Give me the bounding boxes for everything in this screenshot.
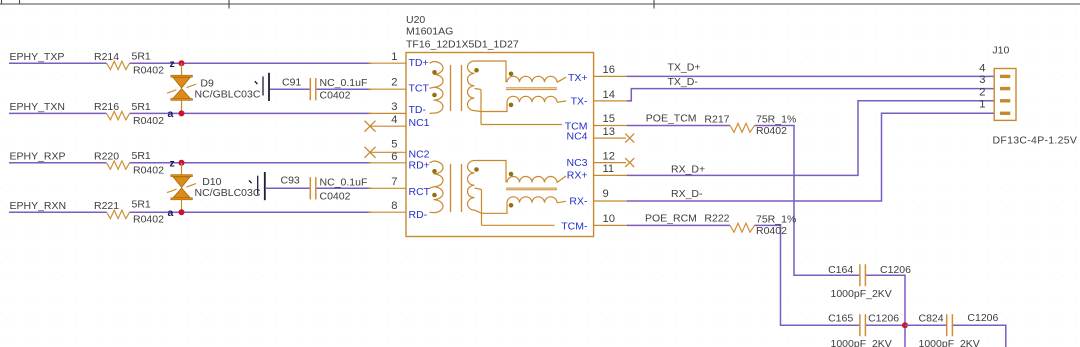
U20 RX center tap to TCM-: [475, 188, 555, 225]
svg-text:TD+: TD+: [409, 57, 429, 69]
J10 pin 4: [979, 62, 1010, 78]
wire TX_D-: [627, 89, 994, 101]
wire C824 right: [953, 325, 1006, 347]
svg-text:6: 6: [391, 151, 397, 163]
svg-text:NC/GBLC03C: NC/GBLC03C: [195, 187, 261, 199]
svg-text:RX-: RX-: [569, 195, 588, 207]
U20 RX choke A dot: [509, 172, 514, 177]
resistor R222: [704, 212, 796, 237]
svg-text:EPHY_RXN: EPHY_RXN: [10, 200, 67, 212]
svg-text:R0402: R0402: [133, 115, 164, 127]
svg-text:DF13C-4P-1.25V: DF13C-4P-1.25V: [993, 135, 1078, 147]
svg-text:D10: D10: [202, 176, 221, 188]
U20 pin 16: [594, 64, 628, 76]
wire C164 to node: [866, 275, 905, 347]
svg-text:RX+: RX+: [567, 170, 588, 182]
svg-text:3: 3: [391, 101, 397, 113]
wire POE_RCM: [627, 225, 860, 325]
svg-text:C164: C164: [828, 264, 853, 276]
svg-text:R0402: R0402: [133, 214, 164, 226]
resistor R220: [94, 150, 164, 176]
capacitor C165: [828, 313, 899, 347]
U20 pin 15: [594, 113, 628, 125]
node junction TXP-D9: [179, 60, 185, 66]
node junction RXP-D10: [179, 160, 185, 166]
svg-text:1000pF_2KV: 1000pF_2KV: [919, 338, 980, 347]
resistor R216: [94, 101, 164, 127]
U20 RX secondary top link: [475, 161, 507, 183]
U20 TX core: [451, 65, 462, 111]
svg-text:C1206: C1206: [967, 312, 998, 324]
svg-text:C824: C824: [919, 313, 944, 325]
wire TX_D+: [627, 75, 994, 77]
U20 RX choke B dot: [509, 203, 514, 208]
svg-text:a: a: [168, 108, 174, 120]
U20 TX primary polarity dots: [432, 70, 437, 97]
wire EPHY_TXP: [9, 62, 371, 64]
svg-text:R221: R221: [94, 200, 119, 212]
svg-text:TD-: TD-: [409, 104, 427, 116]
wire POE_TCM: [627, 126, 860, 276]
U20 TX choke winding B: [481, 96, 566, 111]
svg-text:M1601AG: M1601AG: [406, 26, 453, 38]
U20 pin 2: [368, 77, 406, 90]
svg-text:C1206: C1206: [880, 264, 911, 276]
wire EPHY_RXN: [9, 211, 371, 213]
wire C165 to node: [866, 324, 905, 326]
svg-text:12: 12: [603, 151, 615, 163]
svg-text:POE_TCM: POE_TCM: [646, 112, 697, 124]
svg-text:8: 8: [391, 200, 397, 212]
svg-text:7: 7: [391, 176, 397, 188]
svg-text:75R_1%: 75R_1%: [756, 114, 796, 126]
transformer U20 refdes and value: [406, 14, 519, 51]
svg-text:EPHY_RXP: EPHY_RXP: [10, 151, 66, 163]
U20 pin 11: [594, 163, 628, 175]
svg-text:RD-: RD-: [409, 209, 428, 221]
U20 TX secondary polarity dot: [474, 68, 479, 73]
svg-text:15: 15: [603, 113, 615, 125]
svg-text:4: 4: [391, 114, 397, 126]
svg-text:14: 14: [603, 89, 615, 101]
U20 TX center tap to TCM: [475, 89, 563, 125]
svg-text:z: z: [170, 58, 175, 70]
svg-text:5R1: 5R1: [132, 198, 151, 210]
U20 pin 1: [368, 51, 406, 63]
svg-text:C0402: C0402: [320, 190, 351, 202]
svg-text:C91: C91: [282, 76, 301, 88]
no-connect marker C91 net: [255, 73, 269, 101]
svg-text:J10: J10: [992, 45, 1009, 57]
svg-text:NC1: NC1: [409, 117, 430, 129]
svg-text:2: 2: [391, 77, 397, 89]
svg-text:5R1: 5R1: [132, 51, 151, 63]
svg-text:RCT: RCT: [409, 186, 431, 198]
svg-text:C93: C93: [281, 175, 300, 187]
svg-text:TF16_12D1X5D1_1D27: TF16_12D1X5D1_1D27: [406, 39, 519, 51]
svg-text:R214: R214: [94, 51, 119, 63]
U20 pin 7: [368, 176, 406, 188]
connector J10: [992, 45, 1077, 147]
svg-text:a: a: [168, 207, 174, 219]
wire RX_D-: [627, 113, 994, 201]
U20 RX core: [451, 164, 462, 212]
svg-text:NC/GBLC03C: NC/GBLC03C: [195, 89, 261, 101]
U20 RX secondary winding: [468, 161, 475, 211]
svg-text:R217: R217: [704, 113, 729, 125]
svg-text:RX_D+: RX_D+: [671, 163, 705, 175]
svg-text:1: 1: [391, 51, 397, 63]
svg-text:D9: D9: [200, 78, 214, 90]
svg-text:U20: U20: [406, 14, 425, 26]
U20 RX choke winding B: [482, 197, 567, 213]
svg-text:EPHY_TXP: EPHY_TXP: [10, 51, 65, 63]
svg-text:C165: C165: [828, 313, 853, 325]
U20 right pin names: [561, 72, 588, 232]
svg-text:1: 1: [979, 99, 985, 111]
svg-text:4: 4: [979, 62, 985, 74]
J10 pin 2: [979, 86, 1010, 102]
svg-text:R220: R220: [94, 151, 119, 163]
node junction RXN-D10: [179, 209, 185, 215]
svg-text:5R1: 5R1: [132, 101, 151, 113]
U20 TX choke core: [506, 88, 557, 90]
U20 TX secondary top link: [475, 61, 507, 82]
svg-text:5R1: 5R1: [132, 150, 151, 162]
svg-text:3: 3: [979, 74, 985, 86]
svg-text:1000pF_2KV: 1000pF_2KV: [831, 338, 892, 347]
U20 pin 14: [594, 89, 628, 101]
svg-text:9: 9: [603, 188, 609, 200]
resistor R214: [94, 51, 164, 77]
svg-text:10: 10: [603, 213, 615, 225]
svg-text:POE_RCM: POE_RCM: [645, 212, 697, 224]
svg-text:C1206: C1206: [868, 313, 899, 325]
wire RX_D+: [627, 101, 994, 176]
svg-text:5: 5: [391, 139, 397, 151]
U20 pin 13 no-connect: [594, 126, 635, 142]
J10 pin 1: [979, 99, 1010, 116]
svg-text:75R_1%: 75R_1%: [756, 214, 796, 226]
svg-text:NC_0.1uF: NC_0.1uF: [320, 77, 368, 89]
svg-text:C0402: C0402: [320, 90, 351, 102]
svg-text:z: z: [170, 157, 175, 169]
U20 pin 9: [594, 188, 628, 201]
svg-text:TX_D-: TX_D-: [668, 76, 699, 88]
U20 TX choke B dot: [509, 103, 514, 108]
U20 pin 12 no-connect: [594, 151, 635, 168]
node junction TXN-D9: [179, 110, 185, 116]
svg-text:R222: R222: [704, 212, 729, 224]
U20 RX primary polarity dots: [432, 169, 437, 197]
resistor R217: [704, 113, 796, 136]
svg-text:R216: R216: [94, 101, 119, 113]
svg-text:TX-: TX-: [571, 95, 588, 107]
sheet border: [0, 0, 1080, 9]
U20 RX choke winding A: [507, 176, 566, 183]
svg-text:TCM-: TCM-: [561, 220, 588, 232]
transformer U20 body: [406, 53, 594, 237]
svg-text:NC3: NC3: [566, 157, 587, 169]
svg-text:11: 11: [603, 163, 615, 175]
svg-text:RX_D-: RX_D-: [671, 188, 703, 200]
svg-text:NC4: NC4: [566, 130, 587, 142]
svg-text:16: 16: [603, 64, 615, 76]
U20 TX secondary winding: [468, 61, 475, 111]
svg-text:2: 2: [979, 86, 985, 98]
U20 RX primary winding: [430, 161, 444, 213]
svg-text:R0402: R0402: [133, 65, 164, 77]
wire EPHY_RXP: [9, 162, 371, 164]
U20 TX primary winding: [430, 62, 444, 114]
U20 pin 10: [594, 213, 628, 226]
U20 TX choke winding A: [507, 76, 566, 82]
U20 pin 5 no-connect: [365, 139, 407, 158]
svg-text:TX_D+: TX_D+: [668, 62, 701, 74]
resistor R221: [94, 198, 164, 225]
no-connect marker C93 net: [249, 172, 265, 200]
U20 TX choke A dot: [509, 72, 514, 77]
capacitor C164: [828, 264, 911, 300]
svg-text:R0402: R0402: [133, 164, 164, 176]
svg-text:1000pF_2KV: 1000pF_2KV: [831, 288, 892, 300]
U20 pin 4 no-connect: [365, 114, 407, 132]
svg-text:NC_0.1uF: NC_0.1uF: [320, 176, 368, 188]
diode D10: [167, 163, 261, 212]
svg-text:TX+: TX+: [568, 72, 588, 84]
J10 pin 3: [979, 74, 1010, 90]
svg-text:R0402: R0402: [756, 225, 787, 237]
U20 pin 3: [368, 101, 406, 113]
svg-text:NC2: NC2: [409, 148, 430, 160]
svg-text:RD+: RD+: [409, 160, 430, 172]
wire EPHY_TXN: [9, 112, 371, 114]
U20 pin 6: [368, 151, 406, 163]
diode D9: [167, 63, 261, 113]
capacitor C93: [266, 175, 371, 203]
U20 RX secondary polarity dot: [474, 167, 479, 172]
U20 pin 8: [368, 200, 406, 212]
svg-text:R0402: R0402: [756, 125, 787, 137]
svg-text:13: 13: [603, 126, 615, 138]
svg-text:EPHY_TXN: EPHY_TXN: [10, 101, 65, 113]
U20 left pin names: [409, 57, 431, 221]
svg-text:TCT: TCT: [409, 83, 430, 95]
capacitor C824: [905, 312, 999, 347]
capacitor C91: [270, 76, 371, 101]
node junction bottom: [902, 322, 908, 328]
U20 RX choke core: [506, 188, 557, 190]
